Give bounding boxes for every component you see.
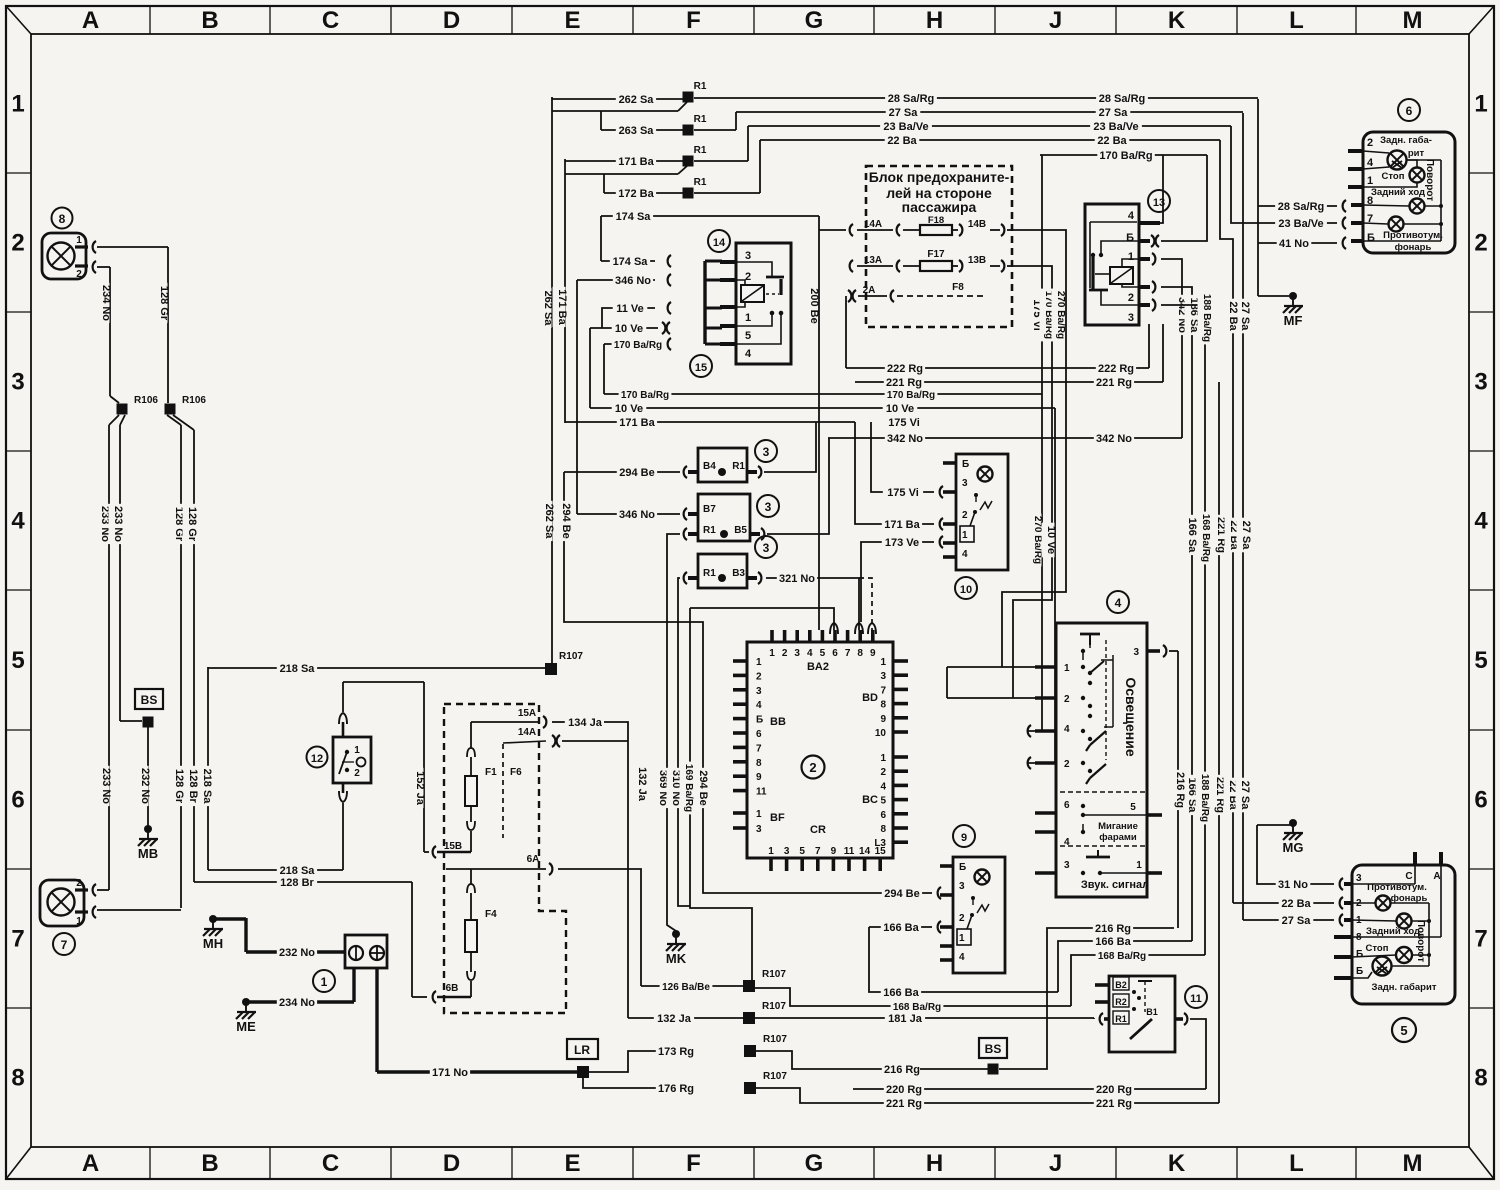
svg-text:4: 4 (962, 549, 968, 560)
svg-text:8: 8 (880, 824, 886, 835)
lamp5 stop lamp (1396, 947, 1412, 963)
svg-text:1: 1 (354, 745, 360, 756)
svg-text:F8: F8 (952, 282, 964, 293)
wire 221 Rg bottom row (756, 1088, 1219, 1103)
wire 216 Rg vertical (1177, 651, 1179, 928)
switch 11 internals (1144, 981, 1146, 1012)
svg-text:E: E (564, 7, 580, 34)
svg-text:2: 2 (880, 767, 886, 778)
svg-text:342 No: 342 No (887, 433, 923, 445)
wire 218 Sa vertical x208 (207, 667, 209, 870)
wire row 346 No to connector 14 (577, 279, 655, 281)
svg-text:M: M (1403, 7, 1423, 34)
wire 10 Ve down to switch 4 pin 2 (1028, 408, 1055, 763)
svg-text:4: 4 (880, 781, 886, 792)
svg-text:170 Ba/Rg: 170 Ba/Rg (887, 390, 935, 401)
wire row 262 Sa / 28 Sa/Rg (552, 98, 683, 100)
svg-text:Поворот: Поворот (1415, 920, 1426, 962)
svg-text:166 Ba: 166 Ba (883, 987, 919, 999)
splice R1 d (683, 188, 694, 199)
ECU left pins group BB (733, 659, 747, 663)
svg-text:J: J (1049, 1150, 1062, 1177)
svg-text:132 Ja: 132 Ja (636, 767, 648, 802)
connector bar of relay 14 (703, 261, 706, 344)
svg-text:1: 1 (1136, 860, 1142, 871)
callout circle 8 (52, 208, 73, 229)
svg-text:MB: MB (138, 846, 158, 861)
svg-text:MK: MK (666, 951, 687, 966)
wire 6A to 126 Ba/Be (558, 869, 641, 986)
ECU right pins group BD (893, 659, 908, 663)
svg-text:1: 1 (1064, 663, 1070, 674)
svg-text:BS: BS (141, 693, 158, 707)
svg-text:220 Rg: 220 Rg (1096, 1084, 1132, 1096)
svg-text:134 Ja: 134 Ja (568, 717, 603, 729)
svg-text:27 Sa: 27 Sa (1099, 107, 1129, 119)
svg-text:4: 4 (11, 508, 25, 535)
svg-text:M: M (1403, 1150, 1423, 1177)
svg-text:14B: 14B (968, 219, 986, 230)
svg-text:7: 7 (880, 685, 886, 696)
fuse F17 row 13A-13B (850, 260, 853, 272)
svg-text:7: 7 (11, 926, 24, 953)
svg-text:170 Ba/Rg: 170 Ba/Rg (621, 390, 669, 401)
wire row 263 Sa / 27 Sa (600, 111, 602, 130)
lamp5 fog lamp (1376, 896, 1391, 911)
wire 171 Ba vertical (564, 159, 566, 423)
callout circle 3c (755, 536, 777, 558)
svg-text:23 Ba/Ve: 23 Ba/Ve (883, 121, 928, 133)
svg-text:175 Vi: 175 Vi (887, 487, 919, 499)
wire row 10 Ve to connector 14 (590, 327, 658, 329)
svg-text:14A: 14A (518, 727, 536, 738)
ECU left pins group BF (733, 811, 747, 815)
svg-text:14: 14 (713, 237, 726, 249)
svg-text:4: 4 (807, 648, 813, 659)
svg-text:11: 11 (756, 787, 767, 798)
svg-text:15B: 15B (444, 841, 462, 852)
lamp5 tail lamp (1373, 957, 1392, 976)
svg-text:41 No: 41 No (1279, 238, 1309, 250)
svg-text:294 Be: 294 Be (560, 503, 572, 538)
relay 14 internals (736, 262, 772, 276)
svg-text:294 Be: 294 Be (884, 888, 919, 900)
wire 346 No row to 3b (577, 513, 680, 515)
svg-text:BA2: BA2 (807, 661, 829, 673)
svg-text:221 Rg: 221 Rg (886, 1098, 922, 1110)
svg-text:15A: 15A (518, 708, 536, 719)
svg-text:222 Rg: 222 Rg (1098, 363, 1134, 375)
wire 262 Sa vertical (551, 97, 553, 663)
wire rows 170 Ba/Rg, 10 Ve long (604, 393, 1042, 395)
svg-text:фонарь: фонарь (1395, 242, 1432, 253)
svg-text:2: 2 (1128, 292, 1134, 304)
svg-text:B: B (201, 1150, 218, 1177)
wire 2A to 222 Rg (845, 296, 847, 368)
svg-text:5: 5 (880, 796, 886, 807)
svg-text:27 Sa: 27 Sa (1240, 521, 1252, 551)
lighting switch 4 body (1056, 623, 1147, 897)
svg-text:232 No: 232 No (139, 768, 151, 804)
switch4 top button symbol (1080, 633, 1100, 636)
svg-text:Мигание: Мигание (1098, 821, 1138, 832)
wire row 170 Ba/Rg to connector 14 (604, 343, 655, 345)
lamp6 tail lamp (1388, 151, 1407, 170)
svg-text:294 Be: 294 Be (619, 467, 654, 479)
svg-text:342 No: 342 No (1096, 433, 1132, 445)
callout circle 15 (690, 355, 712, 377)
ECU right pins group BC (893, 755, 908, 759)
svg-text:262 Sa: 262 Sa (542, 291, 554, 327)
svg-text:14A: 14A (864, 219, 882, 230)
svg-text:Б: Б (1356, 949, 1363, 960)
svg-text:3: 3 (1356, 873, 1362, 884)
wire 342 No from relay13 pin1 (1161, 259, 1182, 438)
callout circle 12 (307, 747, 328, 768)
wire 188 Ba/Rg from relay13 pin3 (1161, 305, 1205, 955)
lamp5 turn lamp (1397, 914, 1412, 929)
svg-text:Задний ход: Задний ход (1366, 926, 1420, 937)
svg-text:5: 5 (820, 648, 826, 659)
svg-text:188 Ba/Rg: 188 Ba/Rg (1201, 294, 1212, 342)
svg-text:28 Sa/Rg: 28 Sa/Rg (1099, 93, 1145, 105)
svg-text:12: 12 (311, 753, 323, 765)
wire dashed to ECU pin9 (859, 578, 872, 630)
svg-text:270 Ba/Rg: 270 Ba/Rg (1055, 291, 1066, 339)
wire 263 Sa riser joining R1 a (552, 110, 678, 112)
svg-text:171 Ba: 171 Ba (618, 156, 654, 168)
callout circle 3b (757, 495, 779, 517)
splice R107 on 262Sa (545, 663, 557, 675)
svg-text:фарами: фарами (1099, 832, 1137, 843)
lamp unit 5 body (rear lamp cluster) (1352, 865, 1455, 1004)
wire 232 No to connector 1 (213, 917, 246, 920)
svg-text:2: 2 (76, 878, 82, 889)
svg-text:1: 1 (1474, 91, 1487, 118)
svg-text:9: 9 (880, 714, 886, 725)
callout circle 2 (802, 756, 825, 779)
svg-text:R2: R2 (1115, 997, 1127, 1007)
svg-text:152 Ja: 152 Ja (414, 771, 426, 806)
svg-text:F1: F1 (485, 767, 497, 778)
svg-text:C: C (322, 7, 339, 34)
wire 369 No from 3b R1 down to ground MK (667, 534, 680, 931)
splice R107 on 173 Rg (744, 1045, 756, 1057)
svg-text:10 Ve: 10 Ve (1045, 526, 1057, 554)
svg-text:321 No: 321 No (779, 573, 815, 585)
lamp6 pin stubs (1348, 149, 1363, 153)
svg-text:128 Gr: 128 Gr (186, 507, 198, 542)
svg-text:1: 1 (769, 648, 775, 659)
svg-text:1: 1 (76, 235, 82, 246)
fuse F1 (470, 722, 472, 748)
svg-text:MF: MF (1284, 313, 1303, 328)
svg-text:2: 2 (354, 768, 360, 779)
svg-text:A: A (82, 1150, 99, 1177)
svg-text:9: 9 (870, 648, 876, 659)
wire 128 Br down to 6B (411, 882, 413, 997)
svg-text:Стоп: Стоп (1366, 943, 1389, 954)
svg-text:168 Ba/Rg: 168 Ba/Rg (893, 1002, 941, 1013)
svg-text:D: D (443, 1150, 460, 1177)
wire 168 Ba/Rg row (755, 988, 1071, 1006)
switch4 pin3 bottom (1035, 871, 1056, 875)
svg-text:C: C (322, 1150, 339, 1177)
switch4 horn button (1086, 856, 1110, 859)
wire 171 No from connector 1 to splice LR (375, 968, 378, 1072)
svg-text:262 Sa: 262 Sa (543, 504, 555, 540)
svg-text:10 Ve: 10 Ve (886, 403, 914, 415)
wire 166 Ba row upper (869, 926, 932, 928)
svg-text:5: 5 (1400, 1023, 1407, 1038)
svg-text:1: 1 (880, 753, 886, 764)
wire row 132 Ja / 181 Ja (628, 1017, 743, 1019)
relay 14 pin stubs (720, 260, 736, 264)
svg-text:6: 6 (832, 648, 838, 659)
svg-text:BD: BD (862, 692, 878, 704)
wire 13B to lighting switch (1012, 266, 1052, 698)
svg-text:5: 5 (745, 330, 751, 342)
wire 310 No from 3c down (678, 578, 690, 906)
svg-text:C: C (1405, 871, 1412, 882)
callout circle 14 (708, 230, 730, 252)
svg-text:6: 6 (880, 810, 886, 821)
svg-text:Б: Б (1356, 966, 1363, 977)
svg-text:Б: Б (1126, 232, 1134, 244)
ground MB (144, 825, 152, 833)
switch4 internal contacts (1081, 649, 1085, 653)
wire from 11 B1 down to 220 Rg (1190, 1019, 1206, 1089)
svg-text:2: 2 (756, 671, 762, 682)
svg-text:346 No: 346 No (619, 509, 655, 521)
svg-text:B5: B5 (734, 525, 747, 536)
callout circle 1 (313, 970, 335, 992)
svg-text:172 Ba: 172 Ba (618, 188, 654, 200)
wire 170 Ba/Rg to relay13 pin4 (1160, 155, 1163, 223)
svg-text:31 No: 31 No (1278, 879, 1308, 891)
wire 294 Be row to 3a (564, 471, 680, 473)
svg-text:218 Sa: 218 Sa (280, 663, 316, 675)
svg-text:R107: R107 (763, 1034, 787, 1045)
svg-text:2: 2 (1064, 694, 1070, 705)
switch unit 10 (956, 454, 1008, 570)
svg-text:5: 5 (799, 846, 805, 857)
wire 294 Be vertical path (564, 472, 932, 893)
callout circle 7 (53, 933, 75, 955)
svg-text:170 Ba/Rg: 170 Ba/Rg (614, 340, 662, 351)
wire row 128 Br lower (194, 881, 412, 883)
svg-text:6: 6 (1474, 787, 1487, 814)
svg-text:K: K (1168, 7, 1186, 34)
svg-text:B4: B4 (703, 461, 716, 472)
svg-text:166 Sa: 166 Sa (1186, 518, 1198, 554)
svg-text:3: 3 (1133, 647, 1139, 658)
svg-text:R1: R1 (703, 568, 716, 579)
svg-text:B1: B1 (1146, 1007, 1158, 1017)
svg-text:22 Ba: 22 Ba (887, 135, 917, 147)
svg-text:F: F (686, 7, 701, 34)
wire 23 Ba/Ve to lamp unit 6 (1231, 126, 1337, 223)
svg-text:B7: B7 (703, 504, 716, 515)
svg-text:рит: рит (1408, 148, 1425, 159)
svg-text:1: 1 (1367, 175, 1373, 187)
svg-text:7: 7 (61, 938, 68, 952)
ground MF (1258, 295, 1289, 297)
wire row 174 Sa lower to connector 14 (601, 260, 655, 262)
wire 128 Gr from lamp8 pin1 (97, 246, 168, 248)
svg-text:L: L (1289, 7, 1304, 34)
splice square under BS (143, 717, 154, 728)
svg-text:R1: R1 (694, 145, 707, 156)
svg-text:6B: 6B (446, 983, 459, 994)
svg-text:9: 9 (961, 832, 967, 844)
wire 221 Rg vertical long (1218, 382, 1220, 1103)
fuse box dashed border (866, 166, 1012, 327)
svg-text:22 Ba: 22 Ba (1097, 135, 1127, 147)
wire 321 No from 3c to ECU pin8 (766, 577, 856, 579)
svg-text:221 Rg: 221 Rg (886, 377, 922, 389)
switch unit 11 body (1109, 976, 1175, 1052)
svg-text:B2: B2 (1115, 980, 1127, 990)
wire row 342 No (828, 437, 1182, 439)
svg-text:1: 1 (1128, 251, 1134, 263)
svg-text:2: 2 (11, 230, 24, 257)
svg-text:166 Ba: 166 Ba (883, 922, 919, 934)
svg-text:3: 3 (745, 250, 751, 262)
wire 128 Gr into lamp7 pin1 (180, 906, 182, 908)
svg-text:Задн. габа-: Задн. габа- (1380, 135, 1432, 146)
svg-text:23 Ba/Ve: 23 Ba/Ve (1278, 218, 1323, 230)
wire 27 Sa vertical (1242, 113, 1244, 920)
svg-text:2: 2 (76, 269, 82, 280)
svg-text:2: 2 (782, 648, 788, 659)
ground MK (672, 930, 680, 938)
svg-text:4: 4 (1064, 724, 1070, 735)
wire 188 Ba/Rg from relay13 pin B (1161, 155, 1207, 241)
wire 173 Ve to switch 10 (861, 542, 934, 622)
connector box 3a B4-R1 (698, 448, 747, 482)
wire 218 Sa from switch 12 bottom (342, 803, 344, 870)
svg-text:A: A (82, 7, 99, 34)
wire 14B to lighting switch (1002, 230, 1066, 667)
svg-text:7: 7 (756, 743, 762, 754)
svg-text:1: 1 (11, 91, 24, 118)
svg-text:173 Ve: 173 Ve (885, 537, 919, 549)
svg-text:176 Rg: 176 Rg (658, 1083, 694, 1095)
splice R107 on 126 Ba/Be (743, 980, 755, 992)
svg-text:1: 1 (756, 809, 762, 820)
lamp5 top pins C and A (1413, 852, 1417, 865)
lamp6 internal bus (1406, 159, 1441, 161)
svg-text:MH: MH (203, 936, 223, 951)
svg-text:B3: B3 (732, 568, 745, 579)
svg-text:128 Br: 128 Br (280, 877, 314, 889)
wire row 218 Sa lower (208, 869, 343, 871)
svg-text:166 Ba: 166 Ba (1095, 936, 1131, 948)
fuse F18 row 14A-14B (850, 224, 853, 236)
svg-text:R1: R1 (732, 461, 745, 472)
switch4 left pins (1035, 665, 1056, 669)
fuse F6 dashed (502, 744, 504, 838)
svg-text:233 No: 233 No (100, 768, 112, 804)
svg-text:200 Be: 200 Be (808, 288, 820, 323)
lamp6 reverse lamp (1410, 199, 1425, 214)
svg-text:G: G (805, 1150, 824, 1177)
wire 186 Sa from relay13 pin2 (1161, 287, 1192, 941)
wire 234 No into connector 1 (246, 1000, 354, 1003)
svg-text:3: 3 (756, 686, 762, 697)
svg-text:28 Sa/Rg: 28 Sa/Rg (1278, 201, 1324, 213)
svg-text:6: 6 (11, 787, 24, 814)
wire row 222 Rg (846, 367, 1149, 369)
wire 170 Ba/Rg down to switch 4 pin 4 (1028, 394, 1042, 731)
svg-text:168 Ba/Rg: 168 Ba/Rg (1200, 514, 1211, 562)
svg-text:171 Ba: 171 Ba (556, 289, 568, 325)
wire 172 Ba riser joining R1 c (565, 173, 678, 175)
splice square LR (577, 1066, 589, 1078)
wire row 172 Ba / 22 Ba (603, 174, 605, 193)
svg-text:Блок предохраните-: Блок предохраните- (869, 169, 1010, 185)
splice R106 right (165, 404, 176, 415)
connector box 3c R1-B3 (698, 554, 747, 588)
wire 234 No from lamp8 pin2 (97, 266, 110, 268)
svg-text:221 Rg: 221 Rg (1096, 377, 1132, 389)
splice R1 b (683, 125, 694, 136)
svg-text:2A: 2A (863, 285, 876, 296)
svg-text:3: 3 (1474, 369, 1487, 396)
svg-text:216 Rg: 216 Rg (1095, 923, 1131, 935)
wire row 221 Rg (855, 381, 1163, 383)
svg-text:1: 1 (76, 916, 82, 927)
svg-text:3: 3 (763, 445, 770, 459)
svg-text:L: L (1289, 1150, 1304, 1177)
splice R1 c (683, 156, 694, 167)
svg-text:пассажира: пассажира (902, 199, 977, 215)
wire 200 Be down to ECU (818, 216, 820, 630)
wire 220 Rg bottom row (853, 1088, 1206, 1090)
svg-text:H: H (926, 7, 943, 34)
splice R106 left (117, 404, 128, 415)
svg-text:F4: F4 (485, 909, 497, 920)
svg-text:4: 4 (756, 700, 762, 711)
svg-text:2: 2 (1367, 137, 1373, 149)
svg-text:CR: CR (810, 824, 826, 836)
svg-text:LR: LR (574, 1043, 590, 1057)
wire 128 Gr / 128 Br pair below R106 right (167, 415, 181, 425)
svg-text:218 Sa: 218 Sa (280, 865, 316, 877)
svg-text:270 Ba/Rg: 270 Ba/Rg (1032, 516, 1043, 564)
svg-text:1: 1 (880, 657, 886, 668)
svg-text:3: 3 (756, 824, 762, 835)
svg-text:R1: R1 (694, 81, 707, 92)
svg-text:27 Sa: 27 Sa (1239, 302, 1251, 332)
wire row 218 Sa upper (208, 667, 545, 669)
svg-text:3: 3 (763, 541, 770, 555)
svg-text:Звук. сигнал: Звук. сигнал (1081, 879, 1149, 891)
svg-text:8: 8 (11, 1065, 24, 1092)
ECU top pin stubs (770, 630, 774, 642)
svg-text:10 Ve: 10 Ve (615, 323, 643, 335)
svg-text:27 Sa: 27 Sa (1282, 915, 1312, 927)
svg-text:27 Sa: 27 Sa (1239, 781, 1251, 811)
svg-text:R106: R106 (134, 395, 158, 406)
svg-text:3: 3 (784, 846, 790, 857)
svg-text:22 Ba: 22 Ba (1227, 301, 1239, 331)
wire 22 Ba to lamp 5 (1233, 902, 1334, 904)
svg-text:3: 3 (794, 648, 800, 659)
svg-text:15: 15 (875, 846, 887, 857)
svg-text:2: 2 (809, 760, 816, 775)
